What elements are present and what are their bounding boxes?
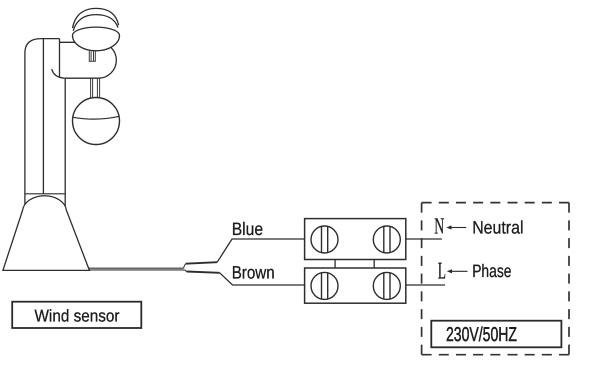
svg-text:N: N <box>434 214 444 239</box>
sensor ball <box>73 98 120 145</box>
svg-text:Blue: Blue <box>232 219 263 239</box>
svg-text:Neutral: Neutral <box>472 218 523 238</box>
wind sensor label box <box>12 302 141 328</box>
base top line <box>25 193 65 195</box>
svg-text:L: L <box>438 259 446 285</box>
ball equator line <box>73 116 120 119</box>
svg-text:Brown: Brown <box>232 263 275 283</box>
TB2 left screw <box>311 272 338 299</box>
svg-text:230V/50HZ: 230V/50HZ <box>446 324 517 346</box>
phase wire to L <box>406 284 445 286</box>
blue wire <box>217 239 304 262</box>
cable sheath bottom line <box>187 272 220 273</box>
pole outline <box>25 39 65 206</box>
sensor cup bottom ellipse <box>73 27 120 51</box>
link wires between TB1 and TB2 <box>335 260 374 269</box>
cable sheath top line <box>186 262 218 264</box>
sensor base cone <box>3 196 90 271</box>
dashed controller enclosure <box>422 203 569 355</box>
terminal block TB1 <box>305 219 406 260</box>
TB1 left screw <box>311 226 338 253</box>
arrow to N <box>446 225 466 229</box>
terminal block TB2 <box>305 268 406 303</box>
sensor cup stack arcs <box>73 8 119 30</box>
stem between bracket and ball <box>91 78 100 100</box>
TB2 right screw <box>373 272 400 299</box>
svg-text:Phase: Phase <box>472 261 511 281</box>
TB1 right screw <box>373 226 400 253</box>
svg-text:Wind sensor: Wind sensor <box>35 306 120 325</box>
power rating box <box>431 321 561 348</box>
mount stud threads <box>89 51 96 61</box>
sensor arm bracket <box>52 42 117 78</box>
brown wire <box>220 273 305 285</box>
wire cable from sensor base <box>84 264 187 272</box>
arrow to L <box>447 269 468 273</box>
neutral wire to N <box>406 238 442 240</box>
